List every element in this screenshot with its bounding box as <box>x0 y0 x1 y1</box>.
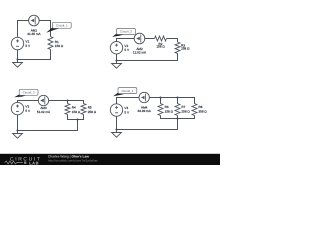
wire <box>177 98 179 104</box>
net flag Circuit_3 <box>14 89 38 97</box>
wire <box>77 120 79 132</box>
voltage source V3 <box>11 102 31 114</box>
ammeter AM3 <box>37 95 51 114</box>
ammeter AM2 <box>133 33 147 55</box>
wire <box>117 129 178 131</box>
net flag Circuit_4 <box>113 88 137 97</box>
svg-text:12.02 mA: 12.02 mA <box>133 51 147 55</box>
wire <box>39 20 50 22</box>
wire <box>17 50 19 60</box>
svg-text:64.99 mA: 64.99 mA <box>138 109 152 113</box>
svg-text:51.02 mA: 51.02 mA <box>37 110 51 114</box>
wire <box>149 97 195 99</box>
svg-text:258 Ω: 258 Ω <box>181 110 190 114</box>
node (junction) <box>176 117 178 119</box>
svg-text:158 Ω: 158 Ω <box>72 110 81 114</box>
wire <box>83 114 85 120</box>
wire <box>83 100 85 104</box>
wire <box>177 115 179 119</box>
wire <box>177 53 179 61</box>
svg-text:158 Ω: 158 Ω <box>165 110 174 114</box>
wire <box>117 97 140 99</box>
svg-text:158 Ω: 158 Ω <box>55 44 64 48</box>
wire <box>18 100 39 102</box>
svg-text:358 Ω: 358 Ω <box>198 110 207 114</box>
wire <box>18 59 51 61</box>
ground <box>13 131 23 139</box>
wire <box>18 20 29 22</box>
svg-text:Circuit_4: Circuit_4 <box>121 89 133 93</box>
wire <box>117 38 135 40</box>
wire <box>18 130 78 132</box>
ground <box>13 60 23 68</box>
net flag Circuit_2 <box>112 28 135 37</box>
wire <box>194 115 196 119</box>
voltage source V1 <box>11 37 31 49</box>
wire <box>160 115 162 119</box>
svg-text:158 Ω: 158 Ω <box>156 45 165 49</box>
ammeter AM4 <box>138 92 152 113</box>
svg-text:R5: R5 <box>88 106 92 110</box>
wire <box>116 38 118 41</box>
svg-text:258 Ω: 258 Ω <box>88 110 97 114</box>
wire <box>50 20 52 37</box>
wire <box>194 97 196 104</box>
node (junction) <box>16 129 18 131</box>
resistor R8 <box>192 104 207 116</box>
wire <box>177 119 179 131</box>
wire <box>67 101 69 104</box>
wire <box>116 116 118 129</box>
resistor R7 <box>175 104 190 116</box>
resistor R4 <box>65 104 81 115</box>
svg-text:Circuit_2: Circuit_2 <box>120 30 132 34</box>
svg-text:31.65 mA: 31.65 mA <box>27 32 41 36</box>
wire <box>67 114 69 120</box>
voltage source V2 <box>110 42 130 54</box>
wire <box>167 38 179 40</box>
svg-text:Circuit_1: Circuit_1 <box>56 23 68 27</box>
resistor R1 <box>48 37 64 50</box>
resistor R6 <box>158 104 174 116</box>
net flag Circuit_1 <box>46 22 71 33</box>
node (junction) <box>159 96 161 98</box>
wire <box>117 60 178 62</box>
wire <box>145 38 155 40</box>
ammeter AM1 <box>27 15 41 36</box>
wire <box>116 97 118 104</box>
footer credit text <box>48 154 99 162</box>
wire <box>161 118 195 120</box>
wire <box>50 49 52 60</box>
wire <box>68 119 84 121</box>
node (junction) <box>16 58 18 60</box>
wire <box>177 38 179 42</box>
svg-text:258 Ω: 258 Ω <box>181 47 190 51</box>
voltage source V4 <box>110 104 130 116</box>
ground <box>112 61 122 69</box>
resistor R2 <box>155 36 167 49</box>
wire <box>17 100 19 102</box>
wire <box>160 98 162 104</box>
svg-text:R6: R6 <box>165 105 169 109</box>
svg-text:R8: R8 <box>198 105 202 109</box>
resistor R5 <box>81 104 97 115</box>
wire <box>17 20 19 37</box>
svg-text:LAB: LAB <box>29 160 39 165</box>
svg-text:Circuit_3: Circuit_3 <box>23 90 35 94</box>
wire <box>116 54 118 61</box>
wire <box>17 115 19 131</box>
node (junction) <box>115 128 117 130</box>
resistor R3 <box>175 42 190 53</box>
CircuitLab logo <box>5 157 42 166</box>
svg-text:R1: R1 <box>55 40 59 44</box>
svg-text:R7: R7 <box>181 105 185 109</box>
node (junction) <box>176 96 178 98</box>
ground <box>112 130 122 138</box>
node (junction) <box>115 59 117 61</box>
svg-text:http://circuitlab.com/c/cme7nr: http://circuitlab.com/c/cme7nr2zvfy6aw <box>48 159 99 163</box>
svg-text:R4: R4 <box>72 106 76 110</box>
wire <box>49 100 84 102</box>
node (junction) <box>76 118 78 120</box>
node (junction) <box>66 99 68 101</box>
